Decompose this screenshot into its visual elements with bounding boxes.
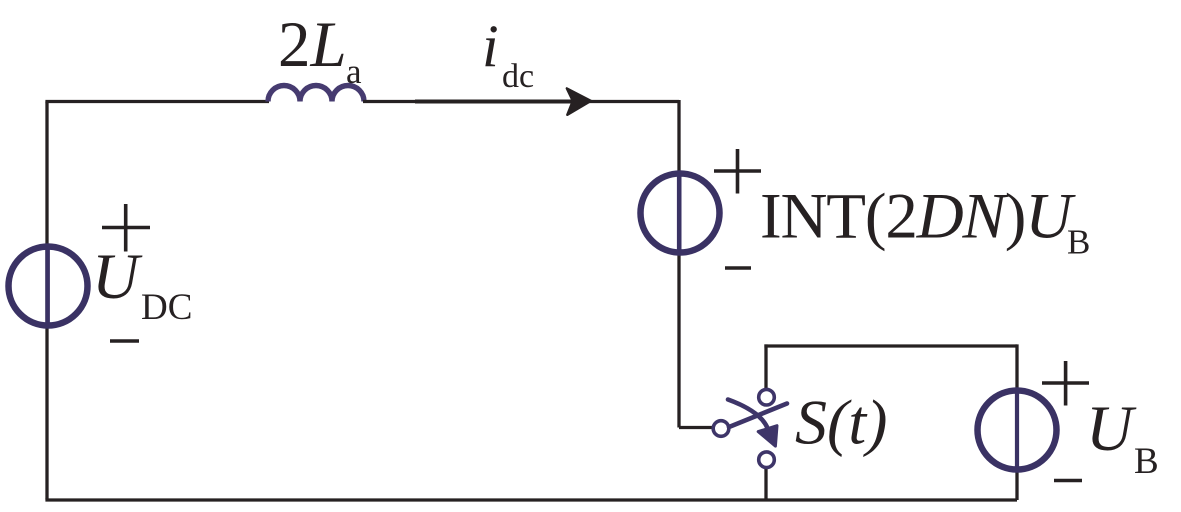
minus sign of U_B [1054, 479, 1082, 483]
wire: top horizontal right segment (inductor to right corner) [363, 100, 679, 103]
switch S(t) bottom contact [759, 452, 775, 468]
minus sign of INT source [725, 266, 751, 270]
switch S(t) left contact [713, 421, 729, 437]
wire: right vertical of INT branch [677, 100, 680, 428]
switch S(t) motion arrow [728, 400, 777, 447]
svg-text:2La: 2La [278, 9, 362, 91]
wire: inner loop top horizontal [764, 344, 1017, 347]
switch S(t) top contact [759, 389, 775, 405]
wire: top horizontal left segment (from top-left corner to inductor) [45, 100, 269, 103]
svg-text:UB: UB [1086, 393, 1159, 482]
switch S(t) blade [729, 404, 787, 428]
svg-text:UDC: UDC [92, 241, 192, 328]
wire: horizontal stub to switch left contact [679, 426, 712, 429]
voltage source U_DC (circle with vertical bar) [9, 247, 88, 326]
inductor 2La coil [268, 86, 364, 102]
wire: left vertical branch [45, 102, 48, 500]
voltage source U_B (circle with vertical bar) [978, 391, 1057, 470]
plus sign of U_DC [102, 204, 150, 252]
svg-text:idc: idc [482, 13, 534, 95]
wire: switch bottom stub [764, 469, 767, 500]
minus sign of U_DC [110, 339, 139, 343]
wire: switch top stub [764, 344, 767, 388]
voltage source INT(2DN)U_B (circle with vertical bar) [641, 174, 720, 253]
wire: bottom horizontal [45, 498, 1017, 501]
svg-text:S(t): S(t) [795, 387, 887, 458]
plus sign of U_B [1042, 361, 1089, 406]
svg-text:INT(2DN)UB: INT(2DN)UB [760, 181, 1090, 262]
plus sign of INT source [714, 149, 761, 194]
current arrow i_dc (thick overlay with solid head) [415, 88, 591, 114]
wire: inner loop right vertical [1015, 344, 1018, 500]
